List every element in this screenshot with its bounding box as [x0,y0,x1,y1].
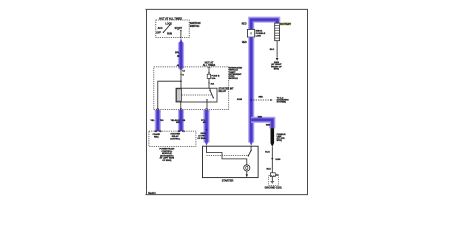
svg-text:OFF: OFF [156,32,161,34]
svg-text:BLK: BLK [270,49,275,51]
svg-text:C2: C2 [182,71,184,73]
svg-text:RED: RED [266,125,271,127]
svg-text:SWITCH: SWITCH [190,25,200,28]
svg-text:OF ENG): OF ENG) [162,160,171,162]
node G103 text [271,62,282,71]
svg-text:MODULE: MODULE [229,78,239,80]
relay switch [206,88,214,109]
svg-text:SYSTEM): SYSTEM) [277,102,287,104]
node junction crank branch [180,80,182,82]
svg-text:ALL TIMES: ALL TIMES [203,64,216,67]
PCM (dashed box) [149,131,196,146]
battery B1 feed wire (highlighted main run) [251,20,277,30]
battery label (highlighted) [280,22,292,26]
svg-text:5avb4: 5avb4 [148,191,156,195]
svg-text:REQ: REQ [154,136,159,138]
svg-text:BLK: BLK [267,169,272,171]
wire to charging system (dashed) [253,99,270,101]
starter solenoid linkage (dashed) [207,155,249,157]
svg-text:RELAY: RELAY [219,90,227,93]
starter interrupt relay K1 [176,88,217,102]
wire crank request to PCM (highlighted) [155,110,161,131]
svg-text:C2: C2 [182,131,184,133]
ignition switch S1 (dashed housing) [156,20,189,38]
relay linkage (dashed) [182,94,212,96]
wire ignition feed inside module [180,70,182,89]
connector C2 to ground [270,173,275,177]
svg-text:ENG): ENG) [274,69,280,71]
wire relay control to PCM (highlighted) [178,110,184,131]
off-page arrow (battery ground) [276,58,279,61]
battery negative wire BLK [276,41,278,58]
splice S108 [271,158,273,160]
svg-text:ACC: ACC [158,27,163,30]
svg-text:S108: S108 [275,159,281,161]
svg-text:PPL: PPL [175,53,180,55]
node charging system text [277,96,289,103]
relay coil output wire [180,101,182,110]
splice S158 [250,99,252,101]
svg-text:START: START [175,27,183,30]
svg-text:RED: RED [258,117,263,119]
theft deterrent module (dashed box) [154,67,229,110]
connector bump D (module bottom right) [205,109,207,110]
wire branch to fusible link (highlighted) [251,120,272,129]
ground G101 [271,177,274,184]
fusible link label [277,134,287,142]
svg-text:STARTER: STARTER [222,180,234,183]
wire PPL ignition START to theft module (highlighted) [179,38,183,69]
starter solenoid coil path [207,146,247,165]
mega fusible link FL1 [247,29,254,37]
starter M1 [203,146,259,177]
svg-text:LOCK: LOCK [165,23,172,25]
splice S204 [206,129,208,131]
svg-text:LINK: LINK [256,35,262,37]
svg-text:RED: RED [242,24,247,26]
wire RED battery to starter (highlighted) [249,37,253,146]
svg-text:YEL: YEL [150,120,155,122]
svg-text:CONTROL: CONTROL [170,139,181,141]
node junction with pin label [208,82,209,83]
svg-text:GROUND G101: GROUND G101 [265,187,283,190]
ignition switch lever [163,24,171,33]
svg-text:BATTERY: BATTERY [280,23,291,26]
fusible link FL2 (heavy) [271,128,275,147]
relay coil [176,89,181,101]
PCM label [159,148,174,163]
svg-text:OF ENG: OF ENG [197,138,205,140]
wire BLK to ground [271,147,273,173]
ignition START terminal [177,29,181,38]
svg-text:C2: C2 [159,131,161,133]
svg-text:BLK: BLK [265,151,270,153]
ground distribution cell (dashed) [269,175,279,185]
fuse F1 [207,74,210,88]
svg-text:S158: S158 [237,99,243,101]
wire crank request branch [158,81,181,109]
starter motor [244,165,250,178]
border frame [146,9,309,195]
svg-text:5B: 5B [182,120,185,122]
connector bump C1 at module top right [208,67,210,68]
battery B1 [275,23,280,41]
svg-text:RED: RED [242,42,247,44]
wire stub into fuse [208,68,210,74]
connector bump E (module bottom middle) [180,109,182,110]
svg-text:RED: RED [259,97,264,99]
wire relay to starter solenoid (highlighted) [205,110,209,146]
svg-text:10A: 10A [211,77,215,80]
connector bump C2 at module top (ignition wire) [180,69,182,70]
svg-text:RUN: RUN [167,34,172,36]
node junction [208,72,209,73]
svg-text:40: 40 [177,64,179,67]
module location text [229,67,243,81]
starter contact [248,146,252,156]
connector bump F (module bottom left) [157,109,159,110]
off-page arrow charging [270,99,272,101]
svg-text:MTR): MTR) [277,140,283,142]
